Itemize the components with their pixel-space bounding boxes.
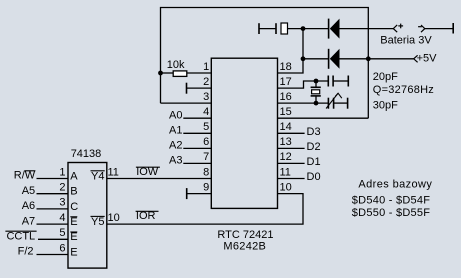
IC U2 74138 body bbox=[68, 163, 107, 269]
capacitor C1 terminal bar bbox=[347, 76, 349, 87]
svg-text:74138: 74138 bbox=[71, 148, 102, 160]
svg-text:3: 3 bbox=[59, 197, 65, 209]
wire pin7 A3 bbox=[183, 162, 211, 164]
node junction dot pin18 riser at diode 1 bbox=[301, 26, 306, 31]
svg-text:11: 11 bbox=[108, 167, 119, 179]
wire 74138 pin5 bbox=[38, 238, 68, 240]
node junction dot crystal bottom bbox=[314, 101, 319, 106]
wire 74138 pin6 bbox=[37, 254, 69, 256]
svg-text:30pF: 30pF bbox=[373, 100, 398, 112]
wire pin15 to +5V riser bbox=[278, 117, 369, 119]
wire diode D2 row from riser dot bbox=[303, 58, 329, 60]
capacitor C1 20pF bbox=[328, 76, 348, 87]
svg-text:2: 2 bbox=[203, 76, 209, 88]
resistor R1 10k bbox=[161, 71, 212, 77]
wire top rail +5V bbox=[161, 8, 369, 119]
wire pin12 D1 bbox=[278, 162, 305, 164]
wire diode D2 to +5V bbox=[340, 58, 415, 60]
trimmer capacitor C2 terminal bar bbox=[347, 98, 349, 109]
wire terminal to capacitor bbox=[259, 28, 276, 30]
wire 74138 pin3 bbox=[37, 208, 69, 210]
label IOW overline bbox=[136, 166, 160, 178]
capacitor backup C4 terminal bar bbox=[258, 23, 260, 34]
svg-text:A: A bbox=[70, 170, 78, 182]
wire 74138 pin2 bbox=[37, 193, 69, 195]
svg-text:Y4: Y4 bbox=[91, 170, 104, 182]
svg-text:17: 17 bbox=[280, 76, 292, 88]
svg-text:12: 12 bbox=[280, 151, 292, 163]
label R/W overline on W bbox=[14, 170, 36, 182]
svg-text:Y5: Y5 bbox=[91, 216, 104, 228]
svg-text:Q=32768Hz: Q=32768Hz bbox=[373, 84, 434, 96]
svg-text:A3: A3 bbox=[169, 155, 182, 167]
wire pin14 D3 bbox=[278, 132, 305, 134]
svg-text:Adres bazowy: Adres bazowy bbox=[358, 179, 432, 191]
svg-text:18: 18 bbox=[280, 61, 292, 73]
wire pin16 bbox=[278, 102, 329, 104]
svg-text:D2: D2 bbox=[307, 141, 321, 153]
svg-text:RTC 72421: RTC 72421 bbox=[217, 229, 273, 241]
trimmer capacitor C2 30pF bbox=[326, 93, 348, 109]
wire pin13 D2 bbox=[278, 147, 305, 149]
battery plus sign bbox=[398, 24, 403, 29]
wire pin2 stub bbox=[187, 83, 212, 94]
battery connector chevron left bbox=[393, 25, 397, 32]
svg-text:Bateria 3V: Bateria 3V bbox=[380, 35, 432, 47]
svg-text:C: C bbox=[70, 201, 78, 213]
svg-text:15: 15 bbox=[280, 106, 292, 118]
svg-text:IOR: IOR bbox=[136, 210, 156, 222]
wire pin5 A1 bbox=[183, 132, 211, 134]
svg-text:D1: D1 bbox=[307, 156, 321, 168]
wire chevron to battery terminal bbox=[425, 28, 453, 30]
IC U1 RTC 72421 body bbox=[211, 58, 277, 208]
wire capacitor to diode D1 bbox=[288, 28, 329, 30]
wire pin6 A2 bbox=[183, 147, 211, 149]
battery minus sign bbox=[418, 26, 422, 28]
svg-text:B: B bbox=[70, 186, 77, 198]
svg-text:R/W: R/W bbox=[14, 170, 36, 182]
svg-text:A0: A0 bbox=[169, 110, 182, 122]
svg-text:16: 16 bbox=[280, 91, 292, 103]
label Y4 overline bbox=[91, 170, 105, 182]
wire pin9 stub bbox=[187, 188, 212, 199]
svg-text:3: 3 bbox=[203, 91, 209, 103]
svg-text:9: 9 bbox=[203, 181, 209, 193]
wire pin18 VDD bbox=[278, 29, 304, 73]
svg-text:A7: A7 bbox=[22, 215, 35, 227]
svg-text:+5V: +5V bbox=[417, 52, 438, 64]
svg-text:11: 11 bbox=[280, 166, 291, 178]
svg-text:A1: A1 bbox=[169, 125, 182, 137]
capacitor C4 polarized plates bbox=[276, 23, 288, 34]
wire pin3 bbox=[161, 102, 212, 104]
diode D1 bbox=[329, 19, 340, 39]
+5V connector chevron bbox=[414, 55, 418, 62]
svg-text:A2: A2 bbox=[169, 140, 182, 152]
svg-text:14: 14 bbox=[280, 121, 292, 133]
wire pin17 to crystal node bbox=[278, 81, 329, 88]
crystal Q1 32768Hz bbox=[311, 81, 321, 103]
wire IOR net RTC pin10 to 74138 Y5 bbox=[107, 194, 303, 225]
svg-text:10: 10 bbox=[108, 212, 120, 224]
battery terminal bar bbox=[452, 23, 454, 34]
svg-text:13: 13 bbox=[280, 136, 292, 148]
svg-text:6: 6 bbox=[203, 136, 209, 148]
svg-text:$D550 - $D55F: $D550 - $D55F bbox=[352, 207, 430, 219]
svg-text:5: 5 bbox=[59, 227, 65, 239]
svg-text:2: 2 bbox=[59, 182, 65, 194]
svg-text:5: 5 bbox=[203, 121, 209, 133]
label IOR overline bbox=[136, 210, 159, 222]
svg-text:E: E bbox=[70, 246, 77, 258]
svg-text:D3: D3 bbox=[307, 126, 321, 138]
svg-text:7: 7 bbox=[203, 151, 209, 163]
battery connector chevron right bbox=[421, 25, 425, 32]
wire pin11 D0 bbox=[278, 178, 305, 180]
node junction dot resistor tap bbox=[158, 71, 163, 76]
pin label E1 inverted U2 bbox=[70, 216, 77, 228]
svg-text:CCTL: CCTL bbox=[6, 231, 35, 243]
wire IOW net 74138 Y4 to RTC pin8 bbox=[107, 178, 212, 180]
svg-text:8: 8 bbox=[203, 166, 209, 178]
svg-text:A5: A5 bbox=[22, 185, 35, 197]
svg-text:A6: A6 bbox=[22, 200, 35, 212]
svg-text:E: E bbox=[70, 216, 77, 228]
wire 74138 pin1 bbox=[37, 178, 69, 180]
svg-text:F/2: F/2 bbox=[18, 246, 34, 258]
svg-text:10k: 10k bbox=[167, 59, 185, 71]
wire 74138 pin4 bbox=[37, 223, 69, 225]
label Y5 overline bbox=[91, 216, 105, 228]
svg-text:$D540 - $D54F: $D540 - $D54F bbox=[352, 195, 430, 207]
label CCTL overline bbox=[5, 231, 36, 243]
diode D2 bbox=[329, 49, 340, 69]
node junction dot crystal top bbox=[314, 79, 319, 84]
wire pin4 A0 bbox=[183, 117, 211, 119]
svg-text:M6242B: M6242B bbox=[223, 240, 266, 252]
svg-text:1: 1 bbox=[203, 61, 209, 73]
svg-text:4: 4 bbox=[59, 212, 65, 224]
svg-text:4: 4 bbox=[203, 106, 209, 118]
svg-text:1: 1 bbox=[59, 166, 65, 178]
svg-text:20pF: 20pF bbox=[373, 71, 398, 83]
node junction dot +5V rail tap bbox=[366, 56, 371, 61]
svg-text:10: 10 bbox=[280, 181, 292, 193]
svg-text:D0: D0 bbox=[307, 171, 321, 183]
node junction dot pin18 riser at diode 2 bbox=[301, 56, 306, 61]
wire diode D1 to battery connector bbox=[340, 28, 394, 30]
pin label E2 inverted U2 bbox=[70, 231, 77, 243]
svg-text:E: E bbox=[70, 231, 77, 243]
svg-text:6: 6 bbox=[59, 242, 65, 254]
